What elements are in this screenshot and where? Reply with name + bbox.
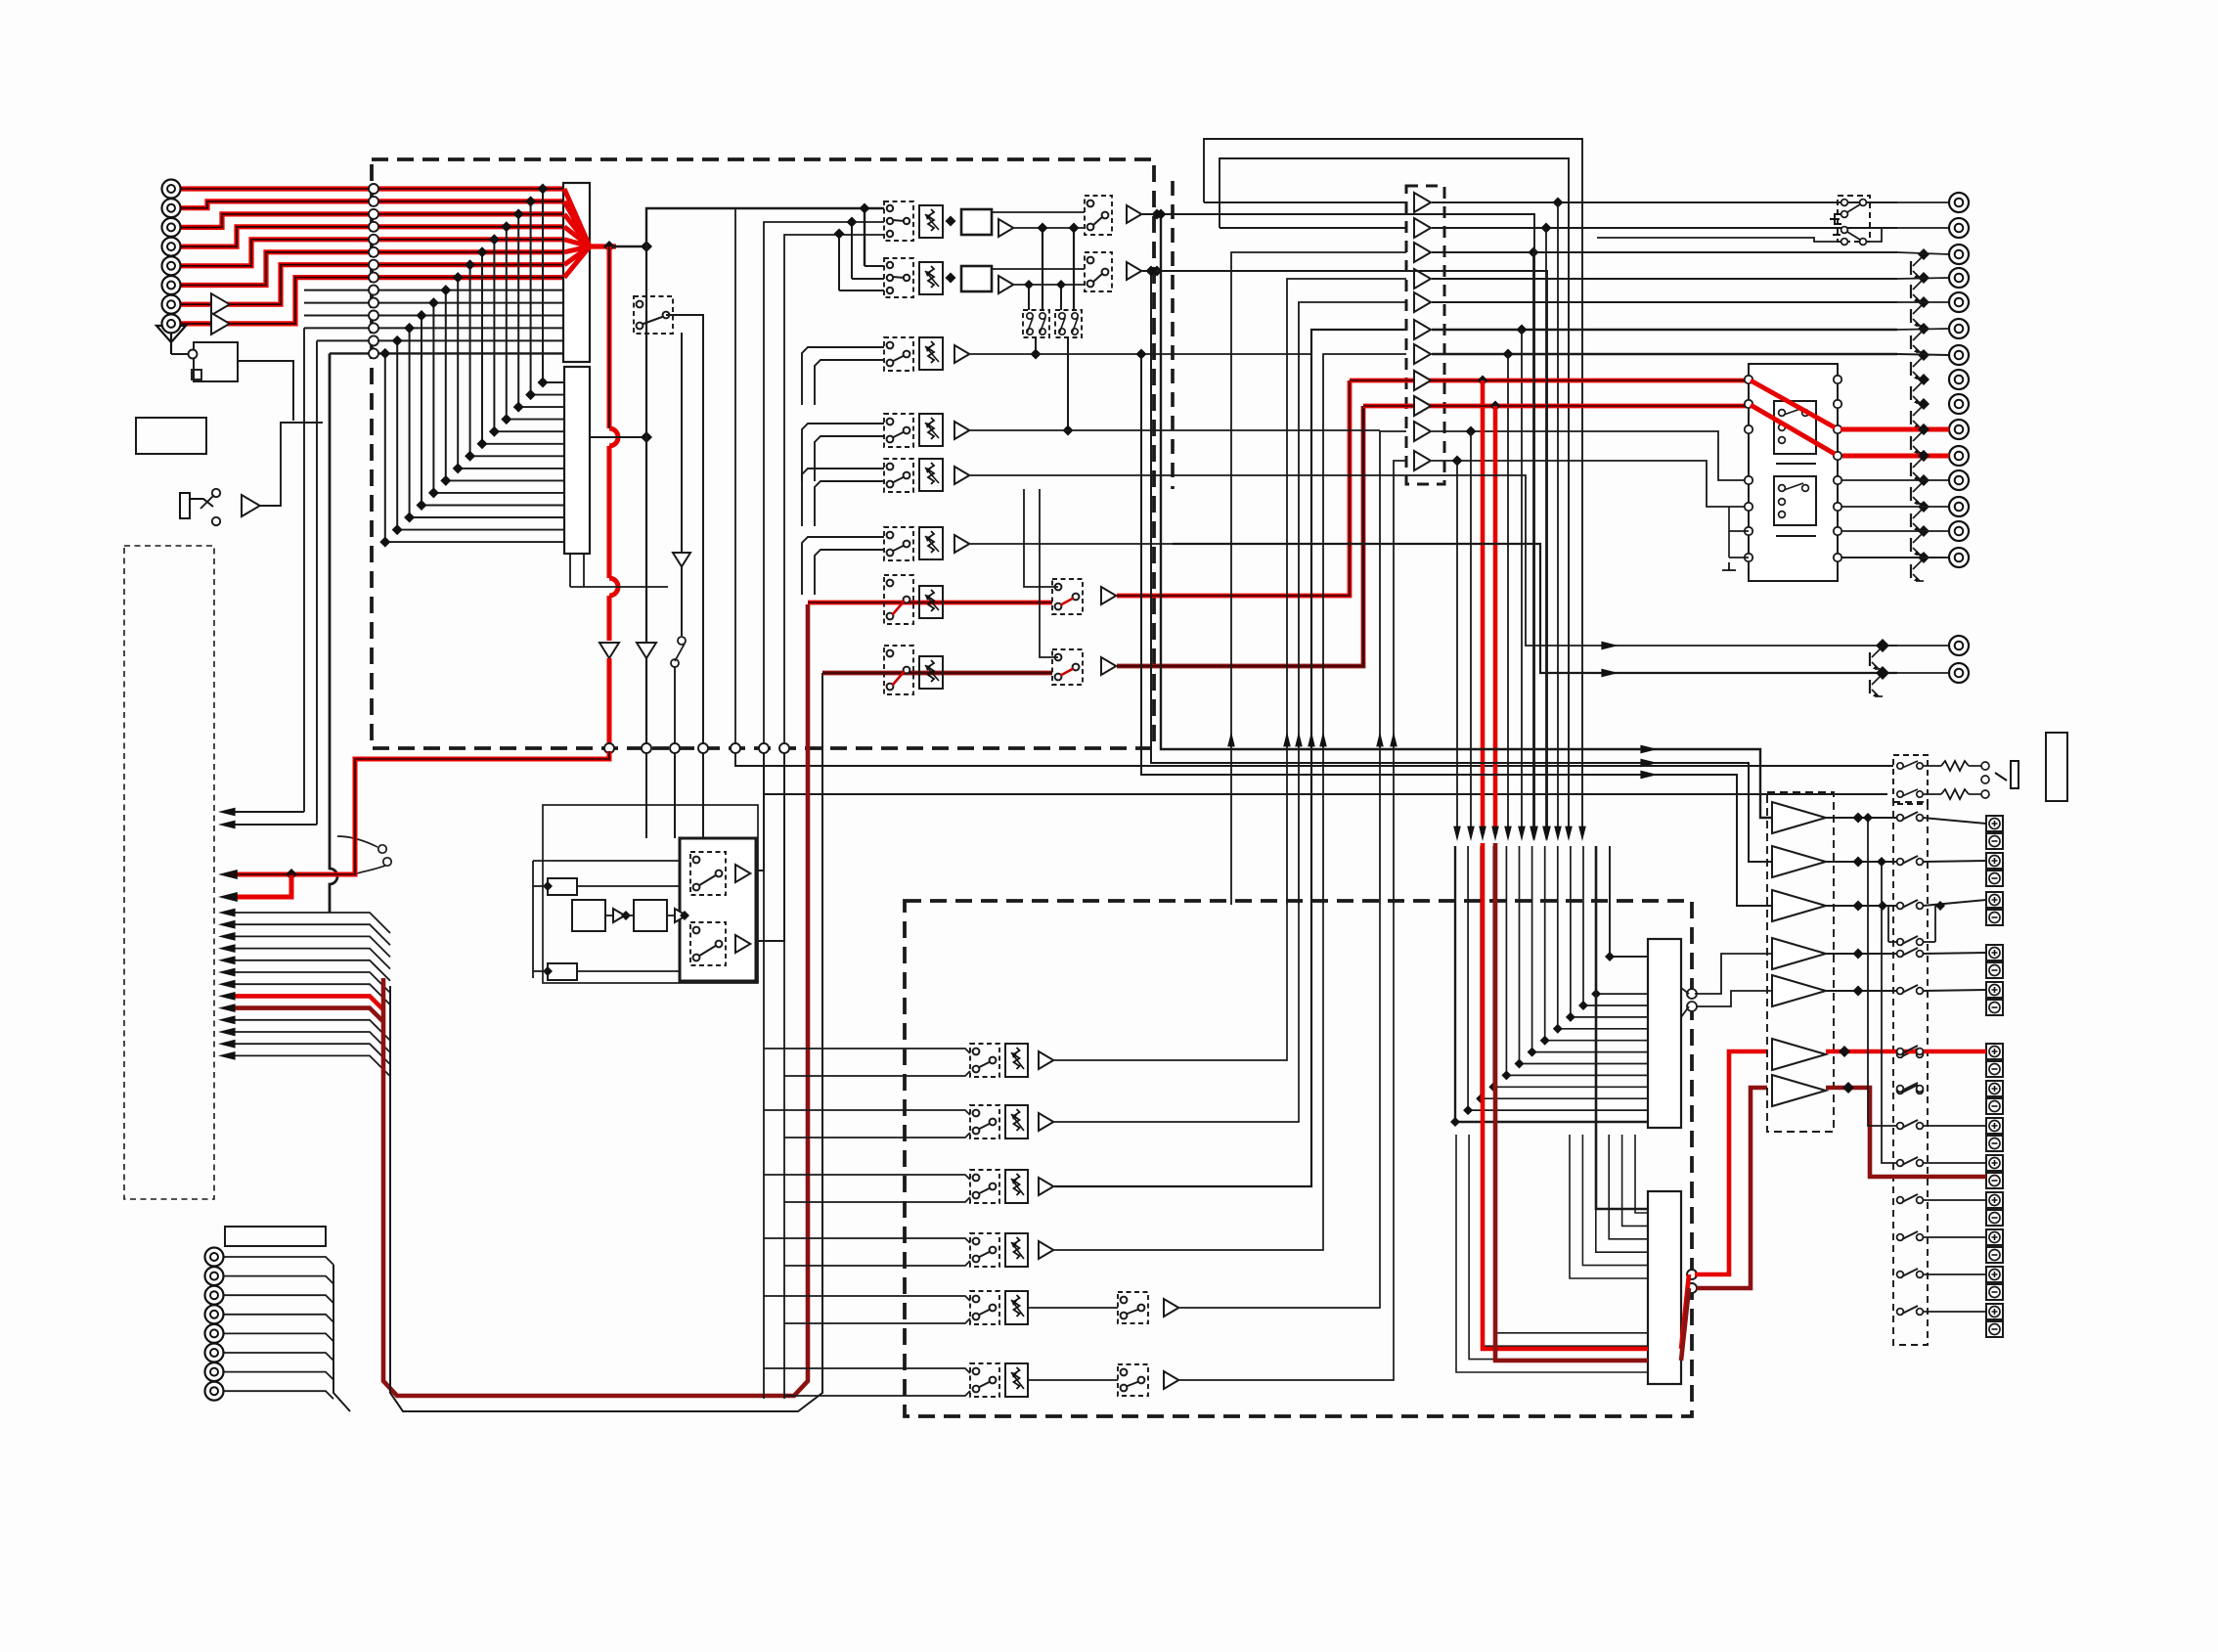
wire rear input 4 — [224, 1315, 333, 1322]
wire dsp return — [1380, 431, 1406, 905]
gang node — [1040, 329, 1045, 335]
wire gang d2 — [1067, 337, 1069, 430]
wire dsp direct — [1610, 846, 1648, 957]
junction — [1591, 989, 1601, 999]
wire dsp row feed a — [764, 1296, 970, 1301]
wire recsel out up 2 — [756, 753, 784, 941]
junction — [1918, 450, 1930, 462]
junction — [1876, 666, 1889, 680]
input switch (row 440) — [884, 414, 913, 447]
front label box — [136, 418, 206, 454]
wire analog input 1 (red) — [181, 186, 565, 191]
wire row feed b — [815, 550, 884, 595]
feedthrough node — [369, 323, 378, 333]
power amp 5 — [1772, 975, 1826, 1006]
wire dsp in 1 — [1455, 846, 1648, 1122]
bus branch 6 vertical — [481, 252, 483, 444]
speaker relay — [1897, 988, 1904, 995]
gang node — [1027, 329, 1033, 335]
wire S1 out — [666, 315, 703, 745]
arrow ctrl bus — [218, 1015, 236, 1024]
headphone relay box — [1893, 755, 1928, 804]
buffer out (row 277) — [1127, 262, 1141, 280]
feedthrough node — [779, 743, 789, 753]
arrow ctrl b — [218, 821, 236, 829]
wire matrix out h2 — [570, 586, 668, 588]
junction — [286, 869, 297, 880]
wire outbuf branch 11 — [1456, 461, 1458, 833]
wire matrix stub 1 — [569, 554, 571, 587]
output relay block — [1749, 364, 1838, 581]
logic small r2 — [548, 963, 577, 980]
RCA rear input 3 — [205, 1286, 224, 1305]
wire outbuf 10 to relay — [1432, 431, 1749, 480]
wire dsp return — [1323, 354, 1406, 905]
RCA output 10 — [1949, 420, 1969, 439]
wire dsp in 3 — [1481, 846, 1648, 1098]
wire analog input 4 core — [181, 227, 565, 246]
mute transistor — [1913, 281, 1922, 290]
feedthrough node — [731, 743, 740, 753]
wire dsp row5 out — [1179, 905, 1380, 1308]
wire row out long — [1173, 271, 1547, 833]
mute transistor — [1913, 560, 1922, 569]
wire dsp link 1 — [1570, 1135, 1648, 1278]
junction — [1515, 1059, 1525, 1069]
wire outbuf branch 6 — [1521, 330, 1523, 833]
bus branch 4 to matrix — [507, 419, 564, 421]
junction — [1578, 1001, 1588, 1010]
wire red branch — [1493, 406, 1498, 833]
output buffer 6 — [1414, 320, 1431, 339]
wire relay out — [1842, 557, 1949, 558]
wire tape bus vertical 1 — [303, 328, 305, 812]
wire logic 8 — [626, 915, 634, 916]
wire outbuf 5 to jack — [1432, 301, 1897, 303]
wire logic 9 — [667, 915, 675, 916]
arrow into dsp (red) — [1491, 826, 1499, 841]
bus branch 13 to matrix — [397, 529, 564, 531]
wire dsp in 2 — [1468, 846, 1648, 1110]
bus branch 8 to matrix — [458, 468, 564, 469]
wire rowfeed vert 2 — [851, 222, 853, 279]
power amp 4 — [1772, 938, 1826, 969]
speaker terminal + — [1986, 1044, 2003, 1059]
speaker terminal - — [1986, 833, 2003, 849]
monitor switch (row 616) — [1052, 579, 1083, 614]
RCA output 9 — [1949, 394, 1969, 414]
junction — [465, 259, 475, 270]
wire amp4 in — [1695, 954, 1772, 994]
arrow ctrl bus — [218, 992, 236, 1001]
wire dsp row3 out — [1054, 905, 1311, 1186]
wire to rec sel 1 — [645, 753, 647, 838]
gang node — [1072, 313, 1078, 319]
RCA output 5 — [1949, 292, 1969, 312]
output buffer 9 — [1414, 396, 1431, 416]
relay underline 2 — [1776, 535, 1816, 537]
RCA output 8 — [1949, 370, 1969, 389]
arrow into dsp — [1467, 826, 1475, 841]
bus branch 5 to matrix — [494, 430, 564, 432]
junction — [1853, 857, 1864, 868]
wire analog input 3 (red) — [181, 214, 565, 228]
wire red out jack2 — [1842, 454, 1949, 459]
junction — [489, 234, 500, 245]
dsp row buffer — [1039, 1241, 1053, 1259]
junction — [501, 414, 511, 424]
junction — [525, 389, 536, 400]
wire gang d1 — [1035, 337, 1037, 354]
feedthrough node — [698, 743, 708, 753]
junction — [1853, 949, 1864, 960]
buffer (row 486) — [954, 467, 969, 484]
wire dsp red out 2 — [1495, 843, 1648, 1361]
bus branch 1 to matrix — [543, 381, 564, 383]
arrow into dsp — [1554, 826, 1562, 841]
wire dsp row feed b — [784, 1318, 970, 1323]
speaker terminal - — [1986, 1098, 2003, 1114]
wire dsp row feed b — [784, 1197, 970, 1202]
wire chip-amp b — [1681, 1006, 1689, 1017]
wire dsp in 11 — [1583, 846, 1648, 1005]
monitor pot (row 688) — [919, 656, 943, 689]
wire gang v3 — [1028, 285, 1030, 310]
wire outbuf branch 10 — [1470, 431, 1472, 833]
wire outbuf 11 to relay — [1432, 461, 1749, 507]
power amp 7 — [1772, 1075, 1826, 1106]
wire tape out core — [229, 751, 609, 874]
dsp out node 2 — [1687, 1283, 1697, 1293]
surround decoder block (row 277) — [961, 266, 992, 291]
bus branch 10 vertical — [432, 303, 434, 493]
output buffer 3 — [1414, 243, 1431, 262]
junction — [392, 335, 403, 346]
speaker relay — [1897, 1088, 1904, 1094]
arrow pre A — [1640, 745, 1658, 754]
junction — [834, 229, 845, 240]
junction — [1038, 223, 1048, 234]
wire tape out 2 (red) — [227, 874, 291, 897]
wire dsp link b4 — [1494, 1135, 1648, 1333]
buffer (row 556) — [954, 535, 969, 553]
feedthrough node — [759, 743, 769, 753]
arrow ctrl bus — [218, 932, 236, 941]
wire monitor aux feed — [1040, 489, 1058, 657]
wire monitor red through — [1363, 404, 1751, 409]
input switch (row 486) — [884, 459, 913, 492]
level pot (row 440) — [919, 414, 943, 446]
speaker relay — [1897, 1086, 1904, 1093]
arrow ctrl bus — [218, 1004, 236, 1012]
output buffer 9 (redraw) — [1414, 396, 1431, 416]
wire loop2 feed — [1220, 227, 1406, 229]
wire out row5 — [1897, 301, 1949, 303]
wire analog input 7 (red) — [181, 265, 565, 305]
input switch (row 277) — [884, 258, 913, 297]
junction — [543, 881, 553, 891]
wire relay feed — [1729, 557, 1749, 558]
wire dsp to amp7 (red) — [1697, 1088, 1767, 1288]
arrow ctrl bus — [218, 909, 236, 917]
speaker relay — [1897, 1051, 1904, 1058]
loop top 2 — [1220, 158, 1569, 833]
wire sw-term 3 — [1923, 900, 1986, 906]
wire tape return core — [822, 672, 1052, 674]
feedthrough node — [670, 743, 680, 753]
rec relay s1 — [1841, 200, 1848, 206]
junction — [1918, 501, 1930, 513]
wire row feed b — [815, 360, 884, 405]
bus branch 14 to matrix — [385, 541, 564, 543]
mute transistor — [1913, 459, 1922, 468]
rec-out relay 2 — [690, 922, 726, 965]
output buffer 4 — [1414, 269, 1431, 289]
power amp 1 — [1772, 802, 1826, 833]
speaker terminal + — [1986, 1155, 2003, 1171]
selector switch S1 — [634, 296, 673, 334]
wire amp6 out (red) — [1826, 1049, 1986, 1054]
aux switch arm — [200, 495, 214, 509]
relay pin R — [1834, 503, 1841, 511]
wire row B feed c — [839, 290, 884, 291]
wire dsp return — [1311, 330, 1406, 905]
wire monitor out core — [1117, 380, 1350, 596]
relay pin R — [1834, 527, 1841, 535]
rec switch node b — [671, 659, 679, 667]
spk AB bracket R2 — [1923, 941, 1935, 943]
output buffer 2 — [1414, 218, 1431, 238]
junction — [477, 438, 488, 449]
wire red out jack1 — [1841, 427, 1949, 432]
rec-out relay 1 — [690, 852, 726, 895]
mute transistor — [1872, 648, 1881, 657]
wire relay feed v — [1728, 507, 1730, 558]
arrow dsp return — [1319, 732, 1327, 746]
wire dsp return — [1231, 252, 1406, 905]
relay pin R — [1834, 554, 1841, 561]
bus branch 6 to matrix — [482, 443, 564, 445]
junction — [440, 475, 451, 486]
wire dsp row feed a — [764, 1175, 970, 1180]
wire main drop (red) — [607, 246, 612, 428]
wire dsp in 9 — [1558, 846, 1648, 1029]
speaker terminal + — [1986, 1229, 2003, 1245]
wire tape bus vertical 2 — [316, 340, 318, 825]
wire logic 2 — [533, 860, 680, 862]
wire sub out 2 — [1887, 672, 1949, 674]
wire buf out — [1014, 227, 1085, 229]
junction — [1529, 247, 1539, 258]
riser rec loop black — [390, 673, 822, 1411]
logic small r1 — [548, 878, 577, 895]
relay pin L — [1745, 425, 1752, 433]
bus branch 2 to matrix — [531, 394, 564, 396]
selector matrix bar 2 — [564, 367, 590, 554]
wire relay red L2 — [1751, 405, 1835, 454]
gang arm — [1059, 318, 1065, 334]
wire analog input 3 core — [181, 214, 565, 228]
arrow into dsp — [1578, 826, 1586, 841]
bus branch 7 to matrix — [470, 455, 564, 457]
hp resistor 1 — [1941, 761, 1969, 771]
buffer (row 219) — [998, 219, 1013, 237]
wire amp out 5 — [1826, 990, 1897, 992]
tuner agc square — [192, 370, 201, 380]
rec gang switch 1 — [1023, 310, 1049, 337]
level pot (row 362) — [919, 337, 943, 370]
junction — [1863, 813, 1873, 823]
wire ctrl feed a — [227, 811, 304, 813]
arrow ctrl bus — [218, 968, 236, 977]
wire monitor out (red) — [1117, 406, 1363, 666]
board boundary dashed — [1171, 181, 1175, 489]
level pot (row 277) — [919, 262, 943, 294]
RCA rear input 5 — [205, 1324, 224, 1343]
relay coil sw 1 — [1779, 410, 1786, 417]
relay coil sw 2 — [1779, 485, 1786, 492]
RCA front input 6 — [162, 276, 181, 294]
wire dsp link 5 — [1622, 1135, 1648, 1226]
wire out row4 — [1897, 278, 1949, 279]
bus branch 11 to matrix — [421, 505, 564, 507]
bus branch 2 vertical — [530, 201, 532, 395]
wire dsp slant 2 (red) — [1681, 1288, 1689, 1361]
speaker relay — [1897, 1309, 1904, 1316]
dsp row pot — [1005, 1105, 1028, 1139]
wire dsp slant 1 (red) — [1681, 1274, 1689, 1349]
rec out relay box — [1838, 196, 1870, 242]
buffer phono L — [211, 293, 230, 315]
wire dsp row1 out — [1054, 905, 1287, 1060]
RCA output 12 — [1949, 470, 1969, 490]
junction — [1540, 1036, 1550, 1046]
wire out row2 — [1597, 238, 1844, 242]
wire block out — [992, 268, 1085, 270]
mute transistor — [1913, 332, 1922, 340]
arrow into dsp — [1453, 826, 1461, 841]
gang node — [1040, 313, 1045, 319]
RCA front input 1 — [162, 180, 181, 199]
dsp row switch — [970, 1233, 999, 1267]
wire relay out — [1842, 479, 1949, 481]
junction — [1452, 456, 1463, 467]
wire dsp row feed a — [764, 1049, 970, 1053]
junction — [1918, 398, 1930, 410]
gang node — [1027, 313, 1033, 319]
speaker terminal - — [1986, 1000, 2003, 1015]
junction — [1063, 425, 1074, 436]
fan segment (red) — [564, 246, 590, 265]
mute transistor — [1913, 382, 1922, 391]
wire logic 5 — [533, 970, 548, 972]
wire ctrl bus — [227, 949, 390, 969]
junction — [1553, 1024, 1563, 1034]
mute transistor — [1913, 432, 1922, 441]
tape play curve — [337, 836, 390, 873]
dsp row pot — [1005, 1291, 1028, 1324]
RCA front input 8 — [162, 314, 181, 333]
wire monitor 1 — [735, 753, 1893, 766]
wire sw-term 5 — [1923, 990, 1986, 991]
output buffer 5 — [1414, 292, 1431, 312]
wire monitor red core — [1350, 380, 1751, 381]
wire gang v1 — [1042, 228, 1043, 310]
junction — [404, 323, 415, 334]
wire ctrl bus — [227, 936, 390, 957]
wire dsp in 8 — [1545, 846, 1648, 1041]
junction — [1605, 952, 1615, 961]
RCA output 17 — [1949, 663, 1969, 683]
input switch (row 362) — [884, 337, 913, 371]
junction — [465, 451, 475, 462]
speaker terminal - — [1986, 910, 2003, 925]
wire row C out — [1173, 353, 1311, 355]
wire tuner out — [238, 361, 293, 421]
arrow into dsp — [1542, 826, 1550, 841]
wire hp 2 — [1923, 793, 1941, 795]
junction — [1877, 857, 1886, 867]
output buffer 8 — [1414, 371, 1431, 390]
wire hp 4 — [1969, 793, 1981, 795]
RCA rear input 6 — [205, 1344, 224, 1362]
FM antenna — [156, 326, 186, 354]
arrow line F — [1601, 669, 1619, 678]
controller dashed block (thin) — [124, 546, 214, 1199]
wire row F out — [1173, 544, 1897, 673]
relay inner 2 — [1774, 476, 1816, 525]
mute transistor — [1913, 407, 1922, 416]
speaker relay — [1897, 939, 1904, 946]
wire outbuf 4 to jack — [1432, 278, 1897, 280]
wire monitor red core — [1363, 405, 1751, 407]
wire video in 1 — [304, 290, 563, 291]
wire logic 4 — [577, 885, 680, 887]
junction — [1152, 266, 1163, 277]
loop top 1 — [1204, 139, 1582, 833]
wire analog input 6 (red) — [181, 252, 565, 286]
hp node 1 — [1981, 762, 1989, 770]
feedthrough node — [369, 197, 378, 206]
rec relay s2 — [1841, 227, 1848, 234]
arrow dsp return — [1227, 732, 1235, 746]
dsp chip 1 — [1648, 939, 1681, 1128]
wire row B feed b — [852, 278, 884, 280]
wire dsp vert feed 2 — [783, 753, 785, 1399]
mute transistor — [1913, 305, 1922, 314]
wire analog input 7 core — [181, 265, 565, 305]
wire main select out (red) — [590, 244, 616, 248]
wire outbuf 7 to jack — [1432, 353, 1897, 355]
wire dsp link 3 — [1596, 1135, 1648, 1252]
bus branch 12 to matrix — [410, 516, 564, 518]
junction — [1918, 450, 1930, 462]
arrow line E — [1601, 642, 1619, 650]
junction — [1918, 424, 1930, 435]
gang arm — [1027, 318, 1033, 334]
wire dsp row feed a — [764, 1110, 970, 1115]
wire analog input 2 core — [181, 201, 565, 208]
bus branch 8 vertical — [457, 278, 459, 469]
speaker relay — [1897, 1160, 1904, 1167]
aux jack node a — [212, 489, 220, 497]
junction — [1918, 374, 1930, 385]
junction — [1478, 376, 1488, 386]
front aux jack — [180, 493, 213, 518]
dsp row buffer — [1164, 1299, 1178, 1317]
wire dsp row feed b — [784, 1071, 970, 1076]
level pot (row 486) — [919, 459, 943, 491]
